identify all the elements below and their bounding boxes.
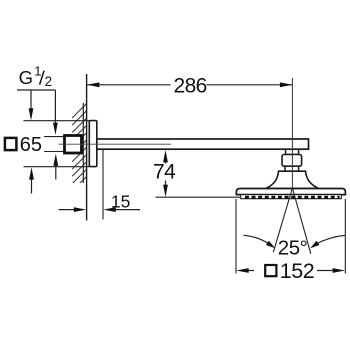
svg-text:G: G	[19, 67, 33, 88]
svg-text:74: 74	[153, 161, 176, 184]
svg-text:286: 286	[174, 75, 207, 98]
svg-text:1: 1	[34, 64, 41, 79]
svg-text:65: 65	[20, 134, 42, 156]
svg-text:25°: 25°	[278, 237, 308, 260]
svg-text:15: 15	[111, 192, 130, 212]
svg-text:2: 2	[45, 74, 53, 89]
svg-text:152: 152	[280, 259, 314, 283]
